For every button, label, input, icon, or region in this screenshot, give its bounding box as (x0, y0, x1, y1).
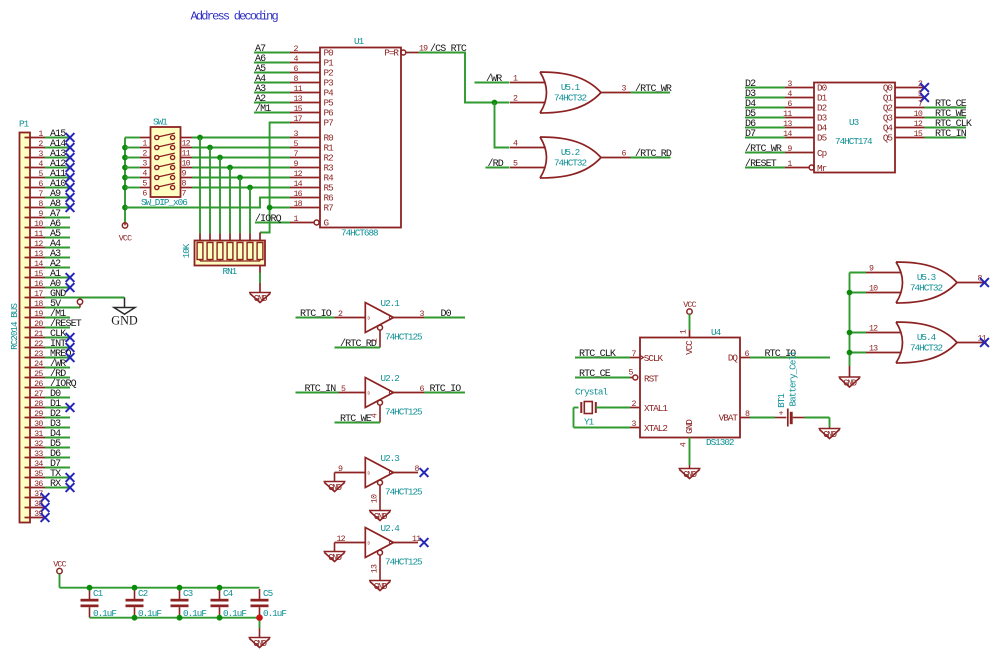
svg-text:C4: C4 (223, 588, 234, 599)
svg-text:18: 18 (34, 300, 43, 309)
svg-text:14: 14 (34, 260, 43, 269)
svg-text:28: 28 (34, 400, 43, 409)
svg-text:U2.2: U2.2 (381, 373, 400, 384)
svg-text:SW1: SW1 (153, 117, 168, 128)
svg-text:C3: C3 (183, 588, 193, 599)
svg-text:10: 10 (371, 494, 380, 503)
svg-text:GND: GND (684, 419, 695, 434)
svg-text:GND: GND (374, 512, 387, 522)
svg-text:U5.2: U5.2 (561, 147, 580, 158)
svg-text:12: 12 (34, 240, 43, 249)
svg-text:11: 11 (783, 110, 792, 119)
svg-text:Battery_Cell: Battery_Cell (788, 350, 799, 406)
svg-text:XTAL1: XTAL1 (644, 403, 668, 414)
svg-text:10: 10 (34, 220, 43, 229)
svg-text:GND: GND (374, 582, 387, 592)
svg-text:74HCT688: 74HCT688 (341, 228, 378, 239)
svg-text:/RTC_RD: /RTC_RD (635, 148, 672, 160)
svg-text:36: 36 (34, 480, 43, 489)
svg-text:14: 14 (294, 180, 303, 189)
svg-text:BT1: BT1 (776, 393, 787, 408)
svg-text:C1: C1 (93, 588, 104, 599)
svg-text:/RTC_WR: /RTC_WR (745, 143, 782, 155)
svg-text:74HCT125: 74HCT125 (385, 407, 422, 418)
svg-text:11: 11 (34, 230, 43, 239)
svg-text:11: 11 (294, 85, 303, 94)
svg-text:RST: RST (644, 374, 659, 385)
svg-text:15: 15 (34, 270, 43, 279)
svg-text:RTC_IO: RTC_IO (300, 309, 332, 320)
svg-text:U3: U3 (849, 117, 859, 128)
svg-text:RTC_IO: RTC_IO (430, 384, 462, 395)
svg-text:26: 26 (34, 380, 43, 389)
svg-text:74HCT174: 74HCT174 (835, 136, 873, 147)
svg-text:/RD: /RD (488, 158, 504, 170)
svg-text:Cp: Cp (817, 148, 827, 159)
svg-text:74HCT32: 74HCT32 (554, 158, 586, 169)
svg-text:15: 15 (294, 105, 303, 114)
svg-text:GND: GND (253, 639, 266, 649)
svg-text:Address decoding: Address decoding (191, 10, 279, 24)
svg-text:D5: D5 (817, 133, 827, 144)
svg-text:/RESET: /RESET (745, 158, 777, 170)
svg-text:74HCT32: 74HCT32 (554, 93, 586, 104)
svg-text:30: 30 (34, 420, 43, 429)
svg-text:0.1uF: 0.1uF (183, 608, 206, 619)
svg-text:31: 31 (34, 430, 43, 439)
svg-text:35: 35 (34, 470, 43, 479)
svg-text:SW_DIP_x06: SW_DIP_x06 (141, 197, 187, 208)
svg-text:U2.3: U2.3 (381, 453, 400, 464)
svg-text:12: 12 (337, 535, 346, 544)
svg-text:/M1: /M1 (255, 103, 271, 115)
svg-text:22: 22 (34, 340, 43, 349)
svg-text:11: 11 (412, 535, 421, 544)
svg-text:32: 32 (34, 440, 43, 449)
svg-text:RTC_IN: RTC_IN (305, 384, 337, 395)
svg-text:Crystal: Crystal (575, 387, 608, 398)
svg-text:+: + (778, 409, 783, 419)
svg-text:74HCT125: 74HCT125 (385, 557, 422, 568)
svg-text:C5: C5 (263, 588, 273, 599)
svg-text:RTC_WE: RTC_WE (340, 414, 372, 425)
svg-text:74HCT125: 74HCT125 (385, 332, 422, 343)
svg-text:RN1: RN1 (223, 266, 238, 277)
svg-text:D7: D7 (745, 129, 756, 140)
svg-text:D0: D0 (441, 309, 452, 320)
svg-text:VCC: VCC (119, 235, 132, 244)
svg-text:23: 23 (34, 350, 43, 359)
svg-text:DS1302: DS1302 (706, 437, 734, 448)
svg-text:R7: R7 (324, 203, 334, 214)
svg-text:U2.4: U2.4 (381, 523, 401, 534)
svg-text:/RTC_WR: /RTC_WR (635, 83, 672, 95)
svg-text:27: 27 (34, 390, 43, 399)
svg-text:74HCT125: 74HCT125 (385, 487, 422, 498)
svg-text:Y1: Y1 (584, 417, 595, 428)
svg-text:13: 13 (783, 120, 792, 129)
svg-text:0.1uF: 0.1uF (223, 608, 246, 619)
svg-text:P7: P7 (324, 118, 334, 129)
svg-text:RTC_CE: RTC_CE (579, 369, 611, 380)
svg-text:10: 10 (914, 110, 923, 119)
svg-text:RTC_CLK: RTC_CLK (579, 349, 616, 360)
svg-text:U5.4: U5.4 (917, 332, 937, 343)
svg-text:16: 16 (34, 280, 43, 289)
svg-text:VCC: VCC (684, 340, 695, 355)
svg-text:21: 21 (34, 330, 43, 339)
svg-text:34: 34 (34, 460, 43, 469)
svg-text:20: 20 (34, 320, 43, 329)
svg-text:12: 12 (914, 120, 923, 129)
svg-text:19: 19 (34, 310, 43, 319)
svg-text:29: 29 (34, 410, 43, 419)
svg-text:GND: GND (823, 430, 836, 440)
svg-text:10K: 10K (181, 243, 192, 258)
svg-text:13: 13 (34, 250, 43, 259)
svg-text:GND: GND (683, 470, 696, 480)
svg-text:/IORQ: /IORQ (255, 213, 282, 225)
svg-text:0.1uF: 0.1uF (93, 608, 116, 619)
svg-text:74HCT32: 74HCT32 (910, 283, 942, 294)
svg-text:13: 13 (371, 564, 380, 573)
svg-text:SCLK: SCLK (644, 353, 664, 364)
svg-text:U5.3: U5.3 (917, 272, 936, 283)
svg-text:U5.1: U5.1 (561, 82, 581, 93)
svg-text:XTAL2: XTAL2 (644, 423, 667, 434)
svg-text:0.1uF: 0.1uF (263, 608, 286, 619)
svg-text:18: 18 (294, 200, 303, 209)
svg-text:P1: P1 (19, 119, 30, 130)
svg-text:RC2014 BUS: RC2014 BUS (9, 303, 20, 350)
svg-text:RTC_IN: RTC_IN (935, 129, 967, 140)
svg-text:Mr: Mr (817, 163, 827, 174)
svg-text:17: 17 (34, 290, 43, 299)
svg-text:GND: GND (111, 314, 138, 328)
svg-text:VBAT: VBAT (719, 413, 739, 424)
svg-text:GND: GND (254, 294, 267, 304)
svg-text:12: 12 (869, 325, 878, 334)
svg-text:74HCT32: 74HCT32 (910, 343, 942, 354)
svg-text:G: G (324, 218, 329, 229)
svg-text:17: 17 (294, 115, 303, 124)
svg-text:13: 13 (294, 95, 303, 104)
svg-text:GND: GND (328, 553, 341, 563)
svg-text:10: 10 (869, 285, 878, 294)
svg-text:U2.1: U2.1 (381, 298, 401, 309)
svg-text:13: 13 (869, 345, 878, 354)
svg-text:/WR: /WR (486, 73, 502, 85)
svg-text:16: 16 (294, 190, 303, 199)
svg-text:GND: GND (328, 483, 341, 493)
svg-text:DQ: DQ (728, 353, 739, 364)
svg-text:U4: U4 (711, 327, 722, 338)
svg-text:0.1uF: 0.1uF (138, 608, 161, 619)
svg-text:14: 14 (783, 130, 792, 139)
svg-text:C2: C2 (138, 588, 148, 599)
svg-text:24: 24 (34, 360, 43, 369)
svg-text:25: 25 (34, 370, 43, 379)
svg-text:GND: GND (843, 379, 856, 389)
svg-text:U1: U1 (354, 36, 365, 47)
svg-text:15: 15 (914, 130, 923, 139)
svg-text:P=R: P=R (384, 48, 399, 59)
svg-text:12: 12 (294, 170, 303, 179)
svg-text:Q5: Q5 (883, 133, 893, 144)
svg-text:33: 33 (34, 450, 43, 459)
